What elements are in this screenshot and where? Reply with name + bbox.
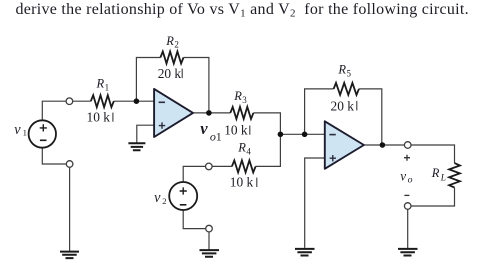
resistor R3 — [230, 107, 253, 119]
svg-text:L: L — [440, 173, 446, 183]
wire R1 to op-amp U1 inverting input — [114, 100, 154, 102]
wire U2 noninverting input down to ground — [305, 158, 325, 248]
wire vo terminal to RL top — [411, 145, 455, 163]
junction at R1 / R2 / U1 input — [134, 98, 140, 104]
resistor R4 — [232, 160, 256, 172]
wire v2 bottom to terminal — [183, 210, 206, 229]
svg-text:R: R — [96, 77, 105, 91]
ground under v1 — [60, 252, 79, 259]
svg-text:v: v — [154, 190, 161, 206]
wire R2 feedback loop left — [136, 58, 160, 102]
terminal vo minus — [404, 203, 411, 210]
U2 noninverting pin mark — [330, 155, 336, 161]
svg-text:2: 2 — [162, 196, 166, 206]
wire RL bottom to vo lower terminal — [411, 188, 455, 206]
svg-text:3: 3 — [242, 95, 247, 105]
wire vo lower terminal to ground — [407, 209, 409, 248]
tick after 20 k (R5) — [356, 101, 358, 111]
svg-text:10 k: 10 k — [224, 123, 248, 138]
wire R5 feedback loop left — [305, 89, 334, 134]
tick after 20 k (R2) — [181, 69, 183, 79]
ground under v2 — [200, 250, 220, 257]
svg-text:5: 5 — [347, 68, 352, 78]
op-amp U1 — [154, 89, 193, 137]
wire R4 up to node A — [256, 134, 281, 166]
svg-text:R: R — [233, 89, 242, 103]
svg-text:20 k: 20 k — [158, 66, 182, 81]
svg-text:10 k: 10 k — [230, 175, 254, 190]
wire U2 output to vo terminal — [364, 144, 405, 146]
U2 inverting pin mark — [329, 134, 335, 136]
resistor R1 — [91, 95, 114, 107]
terminal on v2 bottom wire — [206, 225, 213, 232]
wire U1 noninverting input to ground — [137, 125, 154, 143]
svg-text:1: 1 — [23, 128, 27, 138]
voltage source v1 — [29, 120, 56, 147]
resistor RL — [449, 163, 460, 188]
junction at U1 output — [206, 110, 212, 116]
svg-text:1: 1 — [216, 130, 222, 144]
tick after 10 k (R1) — [112, 113, 114, 122]
voltage source v2 — [169, 182, 197, 210]
terminal vo plus — [404, 142, 411, 149]
terminal on v2 top wire — [206, 163, 213, 170]
ground under U1 noninverting input — [128, 143, 145, 150]
svg-text:R: R — [165, 34, 174, 48]
svg-text:R: R — [237, 141, 246, 155]
vo minus polarity mark — [404, 194, 409, 196]
tick after 10 k (R3) — [249, 126, 251, 135]
svg-text:2: 2 — [174, 40, 179, 50]
tick after 10 k (R4) — [256, 178, 258, 187]
svg-text:o: o — [408, 175, 413, 186]
junction at R5 tap — [302, 132, 308, 138]
junction at U2 output — [380, 142, 386, 148]
wire R3 to node A — [253, 113, 280, 134]
svg-text:R: R — [431, 166, 440, 180]
terminal on v1 bottom wire — [66, 161, 73, 168]
wire v1 top to R1 — [42, 101, 91, 120]
op-amp U2 — [325, 121, 364, 169]
U1 inverting pin mark — [159, 101, 165, 103]
wire v2 terminal to R4 — [212, 165, 232, 167]
svg-text:derive the relationship of Vo: derive the relationship of Vo vs V1 and … — [16, 1, 469, 20]
wire v1 bottom to terminal — [42, 148, 66, 164]
svg-text:1: 1 — [105, 82, 110, 92]
resistor R5 — [334, 83, 359, 95]
svg-text:10 k: 10 k — [87, 110, 111, 125]
wire node A to U2 inverting input — [280, 133, 324, 135]
svg-text:R: R — [337, 63, 346, 77]
wire v2 lower terminal to ground — [208, 232, 210, 250]
ground under vo minus terminal — [398, 249, 418, 256]
terminal on v1 top wire — [66, 98, 73, 105]
ground under U2 noninverting input — [295, 249, 315, 256]
wire v1 terminal down to ground — [69, 167, 71, 251]
U1 noninverting pin mark — [159, 122, 165, 128]
wire v2 top to terminal — [183, 166, 205, 182]
resistor R2 — [160, 52, 183, 64]
wire R2 feedback loop right — [184, 58, 209, 113]
wire R5 feedback loop right — [359, 89, 382, 145]
vo plus polarity mark — [404, 155, 410, 161]
svg-text:4: 4 — [246, 146, 251, 156]
svg-text:20 k: 20 k — [331, 98, 355, 113]
junction node A (R3/R4) — [278, 132, 284, 138]
svg-text:v: v — [200, 119, 208, 138]
wire U1 output to R3 — [193, 112, 230, 114]
svg-text:v: v — [400, 169, 406, 184]
svg-text:v: v — [14, 122, 21, 138]
